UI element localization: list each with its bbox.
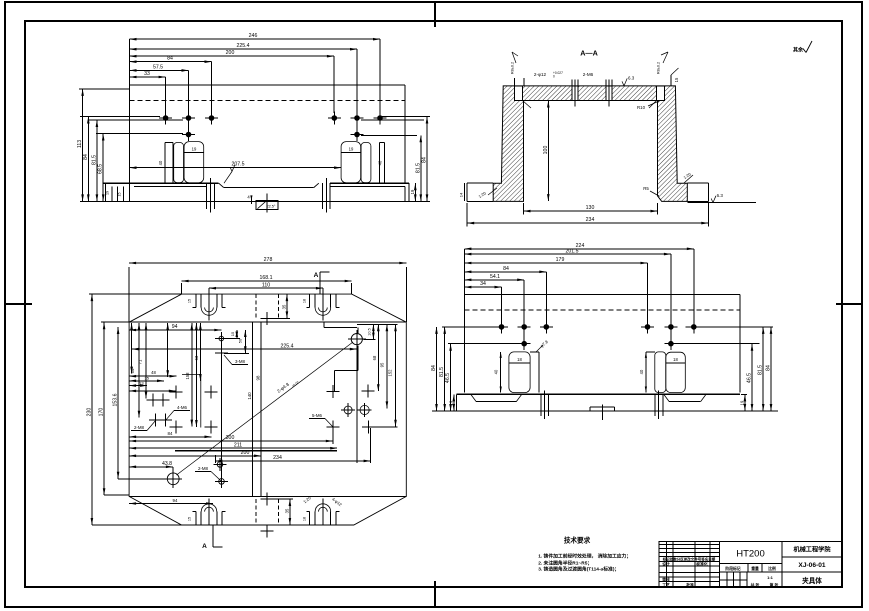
BL dim 35 bottom bbox=[289, 499, 291, 525]
TR roughness 6.3 top bbox=[624, 78, 627, 86]
TL slot right dim 19 bbox=[341, 151, 361, 153]
svg-text:94: 94 bbox=[173, 498, 178, 503]
svg-text:4-φ12: 4-φ12 bbox=[331, 496, 343, 507]
TR roughness bottom right bbox=[687, 202, 756, 204]
TL dim line 84 bbox=[130, 61, 212, 63]
centering tick right bbox=[836, 303, 862, 305]
BL top U-slot left bbox=[195, 294, 197, 307]
BL dim 94 bottom2 bbox=[129, 436, 211, 438]
svg-text:35: 35 bbox=[282, 304, 287, 309]
TR draft flag right bbox=[663, 52, 668, 63]
BL crosses left cluster bbox=[147, 399, 160, 401]
svg-text:设计: 设计 bbox=[662, 562, 670, 567]
svg-text:15: 15 bbox=[188, 517, 192, 521]
svg-text:15: 15 bbox=[230, 331, 235, 336]
svg-text:63: 63 bbox=[194, 355, 199, 360]
svg-text:19: 19 bbox=[410, 189, 415, 194]
svg-text:153.6: 153.6 bbox=[113, 393, 119, 406]
svg-text:其余: 其余 bbox=[793, 47, 804, 54]
BR dim 179 bbox=[464, 262, 647, 264]
svg-text:15: 15 bbox=[188, 299, 192, 303]
svg-text:2-M8: 2-M8 bbox=[198, 466, 209, 471]
svg-text:19: 19 bbox=[739, 400, 744, 405]
svg-text:168.1: 168.1 bbox=[260, 275, 273, 281]
TL dim 207.5 bbox=[130, 167, 342, 169]
svg-text:工艺: 工艺 bbox=[662, 582, 670, 587]
svg-text:94: 94 bbox=[172, 324, 178, 330]
TL left side dims bbox=[79, 88, 130, 90]
svg-text:18: 18 bbox=[517, 357, 522, 362]
svg-text:R8±0.2: R8±0.2 bbox=[657, 62, 661, 74]
svg-text:81.5: 81.5 bbox=[415, 163, 421, 173]
BR holes row2 bbox=[522, 342, 526, 346]
svg-text:95: 95 bbox=[379, 362, 384, 367]
svg-text:152: 152 bbox=[388, 369, 393, 377]
svg-text:19: 19 bbox=[192, 147, 197, 152]
BL hidden slot dashed top bbox=[255, 294, 257, 318]
svg-text:R8±0.2: R8±0.2 bbox=[511, 62, 515, 74]
svg-text:1. 铸件加工前经时效处理， 消除加工应力；: 1. 铸件加工前经时效处理， 消除加工应力； bbox=[538, 552, 631, 559]
TR label 15 right bbox=[671, 68, 679, 75]
svg-text:234: 234 bbox=[273, 455, 282, 461]
svg-text:46.5: 46.5 bbox=[445, 373, 451, 383]
svg-text:0: 0 bbox=[553, 75, 555, 79]
svg-text:81.5: 81.5 bbox=[91, 155, 97, 165]
BL dim 168.1 bbox=[181, 283, 183, 294]
TL base groove right bbox=[322, 183, 324, 209]
BL big circle right bbox=[351, 334, 362, 345]
BR slot right bbox=[645, 352, 647, 393]
svg-text:140: 140 bbox=[247, 392, 252, 400]
svg-text:84: 84 bbox=[766, 365, 772, 371]
svg-text:22.5°: 22.5° bbox=[267, 205, 276, 209]
svg-text:230: 230 bbox=[86, 408, 92, 417]
svg-text:201.5: 201.5 bbox=[566, 249, 579, 255]
TR counterbore hole right bbox=[657, 86, 665, 101]
svg-text:84: 84 bbox=[83, 154, 89, 160]
svg-text:84: 84 bbox=[431, 365, 437, 371]
svg-text:84: 84 bbox=[503, 266, 509, 272]
BL crosses right cluster bbox=[326, 391, 339, 393]
svg-text:HT200: HT200 bbox=[736, 549, 765, 560]
title block middle lower grid bbox=[720, 562, 782, 564]
TL dashed hidden line bbox=[130, 99, 406, 101]
svg-text:3. 铸造圆角及过渡圆角(T114-a标准)；: 3. 铸造圆角及过渡圆角(T114-a标准)； bbox=[538, 566, 619, 573]
TL base groove left bbox=[206, 183, 208, 209]
svg-text:158: 158 bbox=[185, 372, 190, 380]
svg-text:1:20: 1:20 bbox=[478, 190, 488, 199]
BR right dims bbox=[685, 326, 773, 328]
svg-text:64: 64 bbox=[130, 368, 135, 373]
svg-text:225.4: 225.4 bbox=[281, 343, 294, 349]
TL bottom V-block detail box bbox=[256, 200, 278, 209]
svg-text:19: 19 bbox=[349, 147, 354, 152]
BL left cluster small dims bbox=[131, 323, 133, 374]
svg-text:68: 68 bbox=[372, 355, 377, 360]
TR right foot (behind section) bbox=[687, 182, 708, 184]
svg-text:技术要求: 技术要求 bbox=[564, 536, 591, 545]
svg-text:6.3: 6.3 bbox=[628, 75, 635, 80]
BL extension verticals interior bbox=[220, 343, 222, 479]
title block right column rows bbox=[782, 556, 842, 558]
svg-text:1:1: 1:1 bbox=[767, 575, 774, 580]
BL top middle small dims bbox=[236, 330, 238, 339]
BL bottom dim stack bbox=[129, 440, 333, 442]
svg-text:10.5: 10.5 bbox=[368, 328, 372, 335]
BL right vertical dims bbox=[357, 323, 398, 325]
svg-text:15: 15 bbox=[117, 193, 121, 197]
BL shoulder lines bbox=[129, 321, 406, 323]
BL big circle bottom-left bbox=[167, 473, 179, 485]
BL channel verticals bbox=[252, 322, 254, 496]
TL V-block small dim bbox=[250, 196, 252, 205]
TL dim extension left edge bbox=[129, 39, 131, 85]
svg-text:130: 130 bbox=[586, 205, 595, 211]
svg-text:审核: 审核 bbox=[662, 577, 670, 582]
title block outer box bbox=[659, 542, 842, 588]
svg-text:2. 未注圆角半径R1~R5；: 2. 未注圆角半径R1~R5； bbox=[538, 560, 592, 567]
svg-text:18: 18 bbox=[303, 517, 307, 521]
svg-text:A—A: A—A bbox=[580, 49, 598, 58]
svg-text:R5: R5 bbox=[643, 186, 649, 191]
BR hole ext lines up bbox=[501, 287, 503, 321]
title block vertical divider left-mid bbox=[719, 542, 721, 588]
svg-text:+0.02: +0.02 bbox=[291, 380, 300, 388]
BL small circles right cluster bbox=[344, 406, 352, 414]
BR center notch bbox=[589, 407, 591, 411]
svg-text:2-φ4.8: 2-φ4.8 bbox=[276, 381, 290, 393]
BL dim 278 bbox=[128, 267, 130, 322]
centering tick left bbox=[5, 303, 32, 305]
svg-text:13: 13 bbox=[139, 380, 144, 385]
svg-text:18: 18 bbox=[673, 357, 678, 362]
BL top U-slot right bbox=[309, 294, 311, 307]
svg-text:14: 14 bbox=[459, 192, 464, 197]
svg-text:3-M8: 3-M8 bbox=[235, 359, 246, 364]
BL bottom U-slot left bbox=[195, 512, 197, 525]
TL slot left dim 19 bbox=[184, 151, 204, 153]
svg-text:6.3: 6.3 bbox=[717, 193, 724, 198]
BL bottom U-slot right bbox=[309, 512, 311, 525]
svg-text:113: 113 bbox=[77, 140, 83, 148]
TL upper holes row bbox=[163, 116, 167, 120]
TL base profile bbox=[104, 182, 219, 184]
svg-text:40: 40 bbox=[494, 369, 499, 374]
centering tick bottom bbox=[434, 581, 436, 607]
TL lower holes bbox=[186, 132, 190, 136]
BL cross bottom mid bbox=[261, 498, 274, 500]
TR draft flag left bbox=[512, 52, 516, 63]
BL dim 84 below bottom shoulder bbox=[129, 503, 213, 505]
svg-text:179: 179 bbox=[556, 257, 565, 263]
svg-text:A: A bbox=[314, 272, 319, 279]
svg-text:43.8: 43.8 bbox=[162, 461, 172, 467]
TL dim line 33 bbox=[130, 76, 166, 78]
svg-text:5-M6: 5-M6 bbox=[312, 413, 323, 418]
BL left outside dims bbox=[91, 294, 93, 525]
TL view body outline bbox=[130, 84, 406, 86]
svg-text:阶段标记: 阶段标记 bbox=[725, 566, 740, 571]
svg-text:57.5: 57.5 bbox=[153, 64, 163, 70]
svg-text:300: 300 bbox=[226, 435, 235, 441]
BR body outline bbox=[464, 294, 739, 296]
BR base profile bbox=[457, 393, 740, 395]
TR tapped holes 2-M6 bbox=[572, 86, 578, 101]
svg-text:19: 19 bbox=[448, 400, 453, 405]
svg-text:278: 278 bbox=[264, 257, 273, 263]
svg-text:15: 15 bbox=[674, 77, 679, 82]
TR left foot (behind section) bbox=[467, 182, 493, 184]
BR dim 34 bbox=[464, 286, 501, 288]
BL hidden slot dashed bottom bbox=[255, 499, 257, 525]
svg-text:170: 170 bbox=[99, 408, 105, 417]
BR dim 224 bbox=[464, 248, 693, 250]
svg-text:207.5: 207.5 bbox=[232, 162, 245, 168]
TR dim 100 vertical bbox=[547, 101, 549, 202]
svg-text:98: 98 bbox=[256, 375, 261, 380]
BR dim 201.5 bbox=[464, 253, 671, 255]
BR dashed hidden line bbox=[464, 309, 739, 311]
svg-text:33: 33 bbox=[144, 71, 150, 77]
BR holes row1 bbox=[499, 325, 503, 329]
svg-text:200: 200 bbox=[226, 50, 235, 56]
svg-text:4-M6: 4-M6 bbox=[177, 405, 188, 410]
svg-text:19: 19 bbox=[105, 191, 109, 195]
svg-text:机械工程学院: 机械工程学院 bbox=[793, 546, 831, 554]
svg-text:110: 110 bbox=[262, 282, 270, 288]
TL dim line 200 bbox=[130, 55, 334, 57]
svg-text:46.5: 46.5 bbox=[747, 373, 753, 383]
TR section body outline hatched bbox=[493, 86, 687, 201]
BL small circle left bbox=[219, 336, 224, 341]
BL dim 225.4 middle bbox=[132, 348, 357, 350]
svg-text:夹具体: 夹具体 bbox=[802, 576, 822, 585]
TL dim line 225.4 bbox=[130, 48, 358, 50]
BL mid vertical dims bbox=[191, 323, 193, 427]
TL slot right assembly bbox=[341, 142, 361, 183]
BR grooves below slots bbox=[540, 394, 542, 416]
svg-text:第 张: 第 张 bbox=[770, 582, 779, 587]
BL dim 35 top bbox=[286, 294, 288, 318]
svg-text:84: 84 bbox=[422, 157, 428, 163]
svg-text:84: 84 bbox=[167, 56, 173, 62]
svg-text:54.1: 54.1 bbox=[490, 274, 500, 280]
BR dim 84 bbox=[464, 271, 546, 273]
svg-text:35: 35 bbox=[144, 376, 149, 381]
svg-text:71: 71 bbox=[138, 359, 143, 364]
svg-text:34: 34 bbox=[480, 281, 486, 287]
TL dim line 57.5 bbox=[130, 69, 189, 71]
svg-text:40: 40 bbox=[378, 160, 383, 165]
TL hole extension lines up to dims bbox=[165, 77, 167, 113]
svg-text:重量: 重量 bbox=[751, 566, 759, 571]
BR slot left bbox=[500, 352, 502, 393]
svg-text:211: 211 bbox=[234, 442, 242, 448]
svg-text:246: 246 bbox=[249, 33, 258, 39]
BR dim 54.1 bbox=[464, 279, 524, 281]
svg-text:A: A bbox=[202, 543, 207, 550]
svg-text:48: 48 bbox=[151, 370, 156, 375]
TL slot left assembly bbox=[164, 143, 166, 184]
TR dim 234 bbox=[466, 203, 468, 227]
svg-text:81.5: 81.5 bbox=[758, 365, 764, 375]
BL crosses top bbox=[261, 317, 274, 319]
svg-text:84: 84 bbox=[168, 431, 173, 436]
svg-text:批准: 批准 bbox=[686, 582, 694, 587]
title block left grid verticals bbox=[666, 542, 668, 562]
title block left grid horizontals bbox=[659, 544, 720, 546]
svg-text:XJ-06-01: XJ-06-01 bbox=[798, 562, 825, 569]
svg-text:200: 200 bbox=[241, 450, 250, 456]
svg-text:234: 234 bbox=[586, 217, 595, 223]
BR left dims bbox=[442, 326, 499, 328]
centering tick top bbox=[434, 2, 436, 27]
svg-text:共 张: 共 张 bbox=[751, 582, 760, 587]
BL dim 110 bbox=[208, 288, 210, 294]
svg-text:2-φ12: 2-φ12 bbox=[534, 72, 547, 77]
svg-text:1:20: 1:20 bbox=[683, 171, 693, 180]
svg-text:标准化: 标准化 bbox=[695, 562, 708, 567]
title block bottom middle cells bbox=[726, 572, 728, 587]
TL small dims 19 15 bbox=[105, 183, 107, 201]
TL right side dims bbox=[382, 116, 430, 118]
svg-text:68.5: 68.5 bbox=[98, 164, 104, 174]
TL roughness mark on base surface bbox=[224, 172, 232, 184]
TL dim line 246 bbox=[130, 38, 381, 40]
title block vertical divider mid-right bbox=[781, 542, 783, 588]
svg-text:225.4: 225.4 bbox=[237, 43, 250, 49]
svg-text:100: 100 bbox=[543, 146, 549, 155]
BL diagonal leader 2-phi4.8 bbox=[177, 342, 354, 475]
svg-text:35: 35 bbox=[285, 508, 290, 513]
svg-text:标记处数分区更改文件号签名日期: 标记处数分区更改文件号签名日期 bbox=[662, 556, 716, 561]
svg-text:40: 40 bbox=[158, 160, 163, 165]
svg-text:4: 4 bbox=[247, 195, 250, 200]
svg-text:2-M6: 2-M6 bbox=[583, 72, 594, 77]
svg-text:40: 40 bbox=[639, 369, 644, 374]
BL dim 94 top bbox=[129, 329, 221, 331]
BL left step outline bbox=[182, 375, 201, 428]
svg-text:2-M8: 2-M8 bbox=[134, 425, 145, 430]
svg-text:R10: R10 bbox=[637, 105, 646, 110]
BL right step outline bbox=[323, 322, 325, 328]
svg-text:18: 18 bbox=[303, 299, 307, 303]
TR dim 130 bbox=[523, 203, 525, 215]
BL plate outline octagon bbox=[129, 294, 406, 525]
svg-text:比例: 比例 bbox=[768, 566, 776, 571]
TR counterbore hole left bbox=[515, 86, 523, 101]
